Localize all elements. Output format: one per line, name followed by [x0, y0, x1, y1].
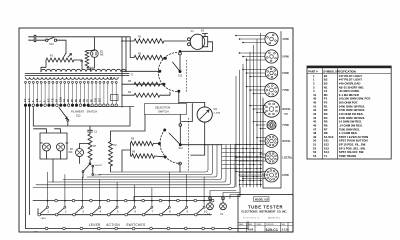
wire: harness grid horizontals: [222, 145, 262, 185]
tube socket 7 PIN: [267, 120, 276, 129]
lever switch rail contacts: [55, 199, 214, 202]
wire: deck B index (dashed): [188, 118, 190, 172]
svg-text:6: 6: [134, 209, 136, 213]
wire: R1 to rectifier: [122, 40, 187, 42]
svg-text:5 PIN: 5 PIN: [282, 56, 288, 59]
tube socket 9 PIN: [265, 168, 279, 182]
wire: top AC line: [36, 37, 130, 107]
wire: lever switch top contact rail: [33, 187, 240, 201]
svg-text:9 PIN: 9 PIN: [282, 174, 288, 177]
tube socket 6 PIN: [265, 67, 277, 79]
svg-text:CHKD: CHKD: [257, 224, 263, 226]
svg-text:117: 117: [99, 97, 102, 102]
svg-text:4/54: 4/54: [248, 228, 254, 232]
lever switch S2: [57, 208, 64, 214]
svg-text:54: 54: [313, 154, 317, 158]
tap voltage value labels: [24, 97, 102, 102]
svg-text:LOCTAL: LOCTAL: [282, 157, 292, 160]
svg-text:SWITCHES: SWITCHES: [126, 223, 145, 227]
harness grid dots: [235, 144, 261, 186]
lever switch S5: [110, 208, 117, 214]
lever switch S1: [40, 208, 47, 214]
svg-text:CATH: CATH: [41, 217, 47, 220]
neon lamp B2: [91, 50, 99, 58]
parts list table: [307, 66, 391, 159]
svg-text:7: 7: [152, 209, 154, 213]
svg-text:9: 9: [187, 209, 189, 213]
wire: deck A feeds: [122, 71, 164, 84]
svg-text:0-1MA: 0-1MA: [214, 112, 221, 115]
svg-text:2: 2: [65, 209, 67, 213]
svg-text:DWG NO.: DWG NO.: [267, 224, 275, 226]
pilot lamp B1: [43, 143, 51, 151]
svg-text:S12: S12: [76, 114, 81, 118]
junction node: [121, 40, 123, 42]
svg-text:FILAMENT SWITCH: FILAMENT SWITCH: [71, 110, 97, 114]
svg-text:110: 110: [95, 97, 98, 102]
svg-text:TUBE TESTER: TUBE TESTER: [248, 204, 283, 209]
svg-text:7 PIN: 7 PIN: [282, 89, 288, 92]
svg-text:V1: V1: [191, 29, 195, 33]
wire: R3 R4 links: [122, 84, 179, 103]
svg-text:625-C1: 625-C1: [266, 228, 278, 232]
lever switch junction dots + risers: [47, 200, 205, 202]
svg-text:GND: GND: [33, 232, 38, 234]
resistor R7: [88, 134, 92, 160]
svg-text:SPECIFICATION: SPECIFICATION: [335, 69, 356, 73]
svg-text:4 PIN: 4 PIN: [282, 38, 288, 41]
transformer T1 core: [25, 73, 129, 75]
svg-text:5: 5: [117, 209, 119, 213]
tube socket OCTAL: [265, 135, 278, 148]
svg-text:R2: R2: [138, 52, 142, 56]
switch S14 (on-off): [36, 39, 46, 41]
svg-text:3-110: 3-110: [282, 228, 289, 232]
wire: lever switch lower rail: [38, 209, 212, 215]
svg-text:8: 8: [169, 209, 171, 213]
potentiometer P2: [109, 142, 113, 167]
tube socket 5 PIN: [265, 50, 278, 63]
svg-text:3: 3: [82, 209, 84, 213]
svg-text:P1: P1: [50, 54, 54, 58]
svg-text:ACTION: ACTION: [106, 223, 120, 227]
resistor R2: [134, 55, 164, 59]
transformer tap terminals: [24, 104, 117, 107]
wire: left drop from terminals: [26, 107, 34, 229]
lever switch S6: [127, 208, 134, 214]
tube socket OCTAL: [263, 101, 279, 117]
socket enclosure: [263, 32, 281, 189]
wire: harness feeds to sockets: [236, 36, 266, 179]
schematic border frame: [19, 28, 293, 232]
ground bus terminals: [45, 227, 231, 230]
svg-text:S13: S13: [179, 147, 184, 150]
lever switch S7: [144, 208, 151, 214]
svg-text:84 WITHERS ST.: 84 WITHERS ST.: [243, 218, 260, 220]
lever switch S8: [162, 208, 169, 214]
resistor R5: [131, 141, 154, 145]
wire: R5 R6 links: [122, 144, 164, 172]
svg-text:S14: S14: [49, 42, 54, 46]
svg-text:S13: S13: [178, 75, 183, 78]
resistor R1: [134, 39, 164, 43]
svg-text:ELECTRONIC INSTRUMENT CO, IN: ELECTRONIC INSTRUMENT CO, INC.: [242, 211, 288, 214]
svg-text:7 PIN: 7 PIN: [282, 124, 288, 127]
pilot lamp B2b: [57, 143, 65, 151]
S13 deck B arc: [160, 130, 180, 164]
capacitor C3: [222, 197, 224, 203]
tube socket 4 PIN: [265, 32, 278, 45]
tube socket LOCTAL: [265, 151, 278, 164]
svg-text:1: 1: [47, 209, 49, 213]
svg-text:M1: M1: [214, 107, 218, 111]
wire: lamps to bus: [47, 151, 61, 182]
lever switch S3: [75, 208, 82, 214]
rectifier tube V1 (83): [190, 34, 205, 49]
title block: [238, 195, 293, 233]
S13 deck A contacts: [164, 57, 166, 59]
meter M1: [197, 107, 212, 122]
harness junction dots: [235, 35, 261, 180]
capacitor C1: [88, 129, 93, 134]
S13 deck B wiper: [179, 124, 182, 127]
svg-text:POW TRANS: POW TRANS: [339, 154, 356, 158]
resistor R4: [134, 93, 160, 97]
svg-text:SHORT: SHORT: [95, 165, 103, 167]
svg-text:SELECTION: SELECTION: [155, 106, 170, 110]
svg-text:NORM: NORM: [95, 175, 102, 177]
resistor R8: [85, 51, 89, 68]
svg-text:T1: T1: [324, 154, 328, 158]
svg-text:TOP: TOP: [284, 114, 289, 116]
winding tap points: [25, 81, 118, 83]
svg-text:SYMBOL: SYMBOL: [323, 69, 335, 73]
filament switch S12 wiper: [59, 108, 68, 120]
wire: V1 plate lead: [180, 34, 213, 52]
selection switch label: [145, 104, 187, 115]
svg-text:4: 4: [100, 209, 102, 213]
svg-text:12.6: 12.6: [59, 97, 62, 102]
svg-text:OCTAL: OCTAL: [282, 140, 291, 143]
svg-text:LEVER: LEVER: [89, 223, 101, 227]
junction node meter lead: [204, 144, 206, 146]
AC plug: [30, 35, 36, 41]
svg-text:SWITCH: SWITCH: [158, 110, 169, 114]
resistor R3: [134, 82, 160, 86]
wire: secondary tap leads: [26, 83, 117, 103]
wire: meter leads: [179, 102, 205, 155]
transformer T1 primary winding: [41, 69, 126, 72]
lever switch S4: [92, 208, 99, 214]
svg-text:MODEL 610: MODEL 610: [255, 198, 269, 201]
wire: deck B vertical feed: [180, 104, 222, 173]
S13 deck A wiper: [179, 52, 182, 55]
overload lamp B3 (#49): [76, 149, 84, 157]
svg-text:NE: NE: [100, 54, 104, 57]
connector block: [111, 95, 119, 101]
wire: terminal rail to selector: [88, 106, 134, 108]
tube socket 7 PIN: [265, 83, 279, 97]
lever switch S10: [197, 208, 204, 214]
wire: ground bus: [26, 222, 249, 229]
pilot lamp enclosure box: [34, 129, 68, 159]
switch S11 short/norm: [84, 160, 91, 171]
wire: bus corners to lever switches: [33, 145, 235, 188]
svg-text:BKLYN, N.Y.: BKLYN, N.Y.: [268, 218, 281, 220]
capacitor C2: [209, 197, 211, 203]
svg-text:R1: R1: [138, 35, 142, 39]
lever switch S9: [179, 208, 186, 214]
potentiometer P1: [46, 58, 74, 62]
transformer T1 secondary winding: [26, 77, 112, 79]
wire: lamp branch: [87, 50, 94, 71]
wire: lower bundle to caps: [210, 191, 243, 199]
svg-text:6 PIN: 6 PIN: [282, 72, 288, 75]
svg-text:OCTAL: OCTAL: [282, 108, 291, 111]
rotary selector S13 deck A arc: [158, 53, 179, 92]
resistor R6: [132, 154, 155, 158]
wire: harness vertical bus: [236, 33, 261, 187]
svg-text:PART #: PART #: [308, 69, 318, 73]
wire: filament wiper to lamp box: [33, 107, 145, 142]
